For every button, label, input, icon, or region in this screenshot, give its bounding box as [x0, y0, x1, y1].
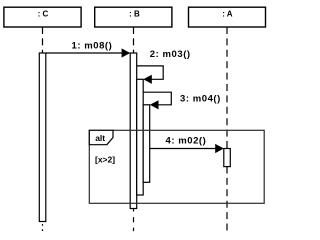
svg-text:[x>2]: [x>2] — [95, 154, 115, 164]
svg-text:: B: : B — [129, 10, 140, 19]
svg-text:: C: : C — [38, 10, 49, 19]
svg-text:: A: : A — [222, 10, 233, 19]
svg-text:1: m08(): 1: m08() — [72, 40, 113, 51]
svg-text:3: m04(): 3: m04() — [180, 94, 221, 105]
svg-text:alt: alt — [95, 133, 105, 143]
svg-text:4: m02(): 4: m02() — [166, 136, 207, 147]
svg-text:2: m03(): 2: m03() — [150, 49, 191, 60]
